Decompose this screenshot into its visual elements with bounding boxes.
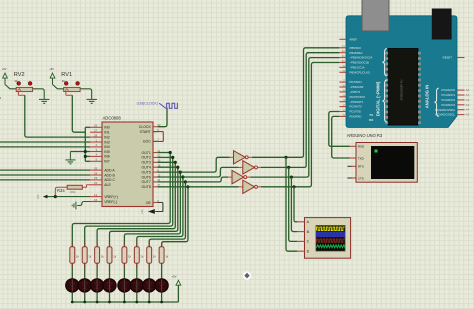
svg-text:ANALOG IN: ANALOG IN [424,85,429,109]
svg-text:11: 11 [342,54,345,58]
svg-text:A1: A1 [466,93,470,97]
svg-text:A3: A3 [466,103,470,107]
svg-text:OUT6: OUT6 [141,175,150,179]
svg-text:10: 10 [341,59,345,63]
svg-text:PB5/SCK: PB5/SCK [350,46,362,50]
svg-text:~PB1/OC1A: ~PB1/OC1A [350,66,365,70]
svg-text:12: 12 [94,193,98,197]
svg-text:1k: 1k [140,255,144,259]
svg-text:A0: A0 [466,88,470,92]
svg-text:+5V: +5V [49,67,54,71]
svg-text:U39(CLOCK): U39(CLOCK) [137,102,158,106]
svg-text:PC4/ADC4/SDA: PC4/ADC4/SDA [435,108,455,112]
svg-text:AREF: AREF [350,37,358,41]
svg-text:PC5/ADC5/SCL: PC5/ADC5/SCL [435,113,455,117]
svg-text:CTS: CTS [358,176,364,180]
svg-text:CLOCK: CLOCK [139,125,152,129]
svg-text:RV1: RV1 [61,72,72,78]
svg-text:PD1/TXD: PD1/TXD [350,110,362,114]
svg-text:+5V: +5V [172,275,177,279]
svg-text:A4: A4 [466,108,470,112]
svg-text:1k: 1k [88,255,92,259]
svg-text:A2: A2 [466,98,470,102]
svg-text:+5V: +5V [141,209,144,214]
svg-text:12: 12 [341,49,345,53]
svg-text:1k: 1k [153,255,157,259]
svg-text:~PD6/AIN0: ~PD6/AIN0 [350,85,364,89]
svg-text:IN4: IN4 [104,145,110,149]
svg-text:R34: R34 [57,188,65,193]
svg-text:23: 23 [94,176,98,180]
svg-text:PB4/MISO: PB4/MISO [350,51,363,55]
svg-text:+5V: +5V [2,67,7,71]
svg-text:PC0/ADC0: PC0/ADC0 [442,88,456,92]
svg-text:24: 24 [94,171,98,175]
svg-text:TXD: TXD [358,156,365,160]
svg-text:IN6: IN6 [104,155,110,159]
svg-text:RXD: RXD [358,145,365,149]
svg-text:OUT8: OUT8 [141,185,150,189]
svg-text:13: 13 [341,44,345,48]
svg-text:IN5: IN5 [104,150,110,154]
svg-text:VREF(+): VREF(+) [104,195,118,199]
svg-text:1k: 1k [76,255,80,259]
svg-text:22: 22 [94,181,98,185]
svg-text:27: 27 [94,129,98,133]
svg-text:ADD A: ADD A [104,168,115,172]
svg-text:ATMEGA328P-PU: ATMEGA328P-PU [401,80,404,101]
svg-text:1k: 1k [62,79,66,83]
svg-text:26: 26 [94,124,98,128]
svg-text:RESET: RESET [443,56,453,60]
svg-text:RX: RX [369,118,373,122]
svg-text:~PB3/MOSI/OC2A: ~PB3/MOSI/OC2A [350,56,373,60]
svg-text:ARDUINO UNO R3: ARDUINO UNO R3 [347,133,383,138]
svg-text:ADD B: ADD B [104,173,115,177]
svg-text:16: 16 [94,198,98,202]
svg-text:OUT5: OUT5 [141,170,150,174]
svg-text:IN2: IN2 [104,135,110,139]
svg-text:PC2/ADC2: PC2/ADC2 [442,98,456,102]
svg-text:PB0/ICP1/CLKO: PB0/ICP1/CLKO [350,70,370,74]
svg-text:25: 25 [94,166,98,170]
svg-text:RTS: RTS [358,165,364,169]
svg-text:100k: 100k [70,190,76,194]
svg-text:PD0/RXD: PD0/RXD [350,115,362,119]
svg-text:OUT1: OUT1 [141,151,150,155]
svg-text:OE: OE [146,201,152,205]
svg-text:ALE: ALE [104,183,111,187]
svg-text:1k: 1k [14,79,18,83]
svg-text:IN0: IN0 [104,126,110,130]
svg-text:1k: 1k [113,255,117,259]
svg-text:EOC: EOC [143,140,151,144]
svg-text:START: START [140,130,152,134]
svg-text:~PD5/T1: ~PD5/T1 [350,90,361,94]
svg-text:PC1/ADC1: PC1/ADC1 [442,93,456,97]
svg-text:~PD3/INT1: ~PD3/INT1 [350,100,364,104]
svg-text:IN3: IN3 [104,140,110,144]
svg-text:A5: A5 [466,113,470,117]
svg-text:OUT7: OUT7 [141,180,150,184]
svg-text:OUT2: OUT2 [141,156,150,160]
svg-text:ADD C: ADD C [104,178,115,182]
svg-text:OUT4: OUT4 [141,165,150,169]
svg-text:OUT3: OUT3 [141,161,150,165]
svg-text:IN7: IN7 [104,160,110,164]
svg-text:28: 28 [94,133,98,137]
svg-text:ADC0808: ADC0808 [103,115,122,120]
svg-text:PD7/AIN1: PD7/AIN1 [350,80,363,84]
svg-text:VREF(-): VREF(-) [104,200,117,204]
svg-text:PD2/INT0: PD2/INT0 [350,105,363,109]
svg-text:RV2: RV2 [14,72,25,78]
svg-text:IN1: IN1 [104,130,110,134]
svg-text:+5V: +5V [37,194,40,199]
svg-text:TX: TX [369,113,373,117]
svg-text:PC3/ADC3: PC3/ADC3 [442,103,456,107]
svg-text:DIGITAL (~PWM): DIGITAL (~PWM) [376,81,381,116]
svg-text:PD4/T0/XCK: PD4/T0/XCK [350,95,366,99]
svg-text:~PB2/SS/OC1B: ~PB2/SS/OC1B [350,61,370,65]
